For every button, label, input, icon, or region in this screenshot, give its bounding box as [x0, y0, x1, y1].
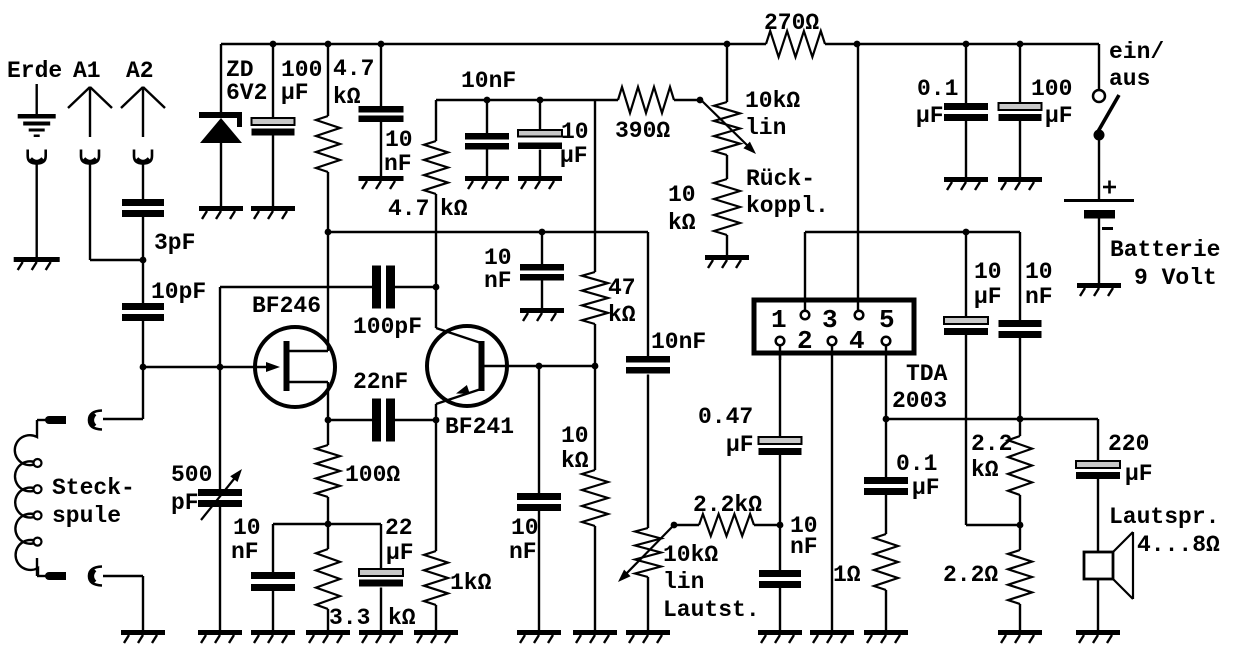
capacitor 10nF (feedback) [999, 320, 1042, 327]
wire 2.2k to input node [754, 524, 780, 526]
wire pin3 to ground [831, 346, 833, 630]
svg-text:µF: µF [386, 540, 414, 566]
svg-text:kΩ: kΩ [668, 210, 696, 236]
svg-text:10: 10 [561, 423, 589, 449]
svg-text:µF: µF [1045, 103, 1073, 129]
svg-text:10: 10 [1025, 259, 1053, 285]
wire rail to 4.7k [327, 44, 329, 116]
svg-text:aus: aus [1109, 66, 1150, 92]
svg-text:nF: nF [231, 539, 259, 565]
collector lead BF241 [435, 287, 437, 328]
svg-text:3: 3 [822, 305, 838, 335]
potentiometer 10 kOhm lin volume [635, 528, 661, 577]
wire 47k column from regen rail [594, 100, 596, 272]
ground (0.1uF supply) [944, 177, 988, 182]
wire 4.7k to drain rail [327, 172, 329, 232]
capacitor 0.1uF (supply) [944, 103, 988, 110]
svg-text:kΩ: kΩ [388, 605, 416, 631]
wire 100uF from rail [272, 44, 274, 118]
drain lead BF246 [289, 350, 328, 352]
svg-text:µF: µF [281, 80, 309, 106]
resistor 10 kOhm (base bias lower) [582, 470, 608, 526]
svg-text:390Ω: 390Ω [615, 118, 670, 144]
wire input node to 10nF [779, 525, 781, 570]
capacitor 10uF electrolytic (regen rail) [518, 130, 562, 137]
svg-text:Batterie: Batterie [1110, 237, 1220, 263]
node 0.1uF rail [963, 41, 970, 48]
zener diode ZD 6V2 [199, 112, 242, 118]
wire gate node to 500pF junction [143, 366, 220, 368]
ground (2.2R) [998, 630, 1042, 635]
capacitor 10nF (drain RF filter) [520, 264, 564, 271]
svg-text:Rück-: Rück- [746, 166, 815, 192]
svg-text:Lautst.: Lautst. [663, 597, 760, 623]
svg-text:2.2Ω: 2.2Ω [943, 562, 998, 588]
svg-text:nF: nF [384, 151, 412, 177]
resistor 2.2 kOhm (to amp input) [699, 514, 754, 536]
socket for Erde lead [28, 150, 46, 164]
node 500pF junction [217, 364, 224, 371]
plus sign [1103, 186, 1116, 189]
capacitor 22nF [372, 399, 381, 442]
wire coil bottom socket to ground [103, 575, 143, 577]
node emitter/22nF [433, 417, 440, 424]
svg-text:0.1: 0.1 [896, 451, 937, 477]
ground (10uF regen) [518, 176, 562, 181]
pin 3 circle [828, 337, 837, 346]
transistor BF246 JFET [255, 327, 335, 407]
wire 10nF branch [272, 524, 274, 572]
svg-text:10: 10 [385, 127, 413, 153]
svg-text:µF: µF [912, 475, 940, 501]
svg-text:220: 220 [1108, 431, 1149, 457]
ground (100uF supply) [998, 177, 1042, 182]
node feedback divider [1017, 522, 1024, 529]
node 10nF/output [1017, 416, 1024, 423]
wire pin2 rail [805, 231, 1020, 233]
wire switch to battery [1098, 135, 1100, 199]
svg-text:Erde: Erde [7, 58, 62, 84]
capacitor 10nF (input filter) [759, 570, 801, 577]
capacitor 3pF [122, 199, 164, 206]
svg-text:Lautspr.: Lautspr. [1109, 504, 1219, 530]
node A1/A2 junction [140, 257, 147, 264]
wire 10uF down to divider [965, 335, 967, 525]
svg-text:BF241: BF241 [445, 414, 514, 440]
svg-text:5: 5 [879, 305, 895, 335]
wire 4.7k down to collector node [435, 194, 437, 287]
svg-text:100pF: 100pF [353, 314, 422, 340]
svg-text:10: 10 [561, 119, 589, 145]
svg-text:µF: µF [726, 432, 754, 458]
wire pin4/Vs from rail [854, 41, 861, 48]
svg-text:ein/: ein/ [1109, 39, 1164, 65]
wire feedback line right [395, 286, 436, 288]
ground (3.3k) [306, 630, 350, 635]
battery 9V [1064, 199, 1134, 202]
ground (input filter) [758, 630, 802, 635]
socket coil bottom [89, 567, 102, 586]
wire Zobel from output node [885, 419, 887, 477]
wire rail to switch [1098, 44, 1100, 90]
wire speaker to ground [1097, 579, 1099, 630]
pin 4 circle [855, 311, 864, 320]
resistor 1 kOhm (emitter) [424, 551, 448, 605]
capacitor 100pF (feedback) [372, 266, 381, 309]
wire tank node down to coil plug [142, 367, 144, 419]
wire 500pF down [219, 367, 221, 489]
antenna A1 [89, 87, 91, 137]
capacitor 22uF electrolytic [359, 569, 403, 576]
wire wiper to 2.2k [674, 524, 699, 526]
resistor 390 Ohm [618, 87, 674, 113]
wire node to 10pF [142, 260, 144, 303]
svg-text:µF: µF [1125, 461, 1153, 487]
ground (regen divider) [705, 255, 749, 260]
svg-text:lin: lin [663, 569, 704, 595]
wiper arrow of volume pot [671, 522, 678, 529]
wire zener from rail [220, 44, 222, 112]
variable capacitor 500pF [198, 489, 242, 496]
ground (Zobel) [864, 630, 908, 635]
svg-text:pF: pF [171, 490, 199, 516]
antenna A2 [142, 87, 144, 137]
capacitor 10nF (AF coupling) [626, 356, 670, 363]
svg-text:10: 10 [974, 259, 1002, 285]
arrow of variable capacitor 500pF [201, 474, 238, 520]
ground (1k) [414, 630, 458, 635]
svg-text:1Ω: 1Ω [833, 562, 861, 588]
node base junction [592, 363, 599, 370]
svg-text:µF: µF [560, 143, 588, 169]
resistor 2.2 Ohm (feedback divider) [1019, 525, 1021, 550]
source lead BF246 [289, 381, 328, 383]
svg-text:kΩ: kΩ [440, 196, 468, 222]
minus sign [1102, 227, 1113, 230]
wire feedback line left [220, 286, 372, 288]
wire 22uF branch [380, 524, 382, 569]
svg-text:10: 10 [511, 515, 539, 541]
wire A1 down to join A2 [89, 164, 91, 260]
wire output pin down [885, 346, 887, 419]
ground (coil) [121, 630, 165, 635]
switch ein/aus [1093, 90, 1105, 102]
wire 0.1uF from rail [965, 44, 967, 103]
svg-text:nF: nF [484, 268, 512, 294]
ground (base filter) [517, 630, 561, 635]
svg-text:3.3: 3.3 [329, 605, 370, 631]
wire 3pF to node [142, 216, 144, 260]
ground (drain filter) [520, 308, 564, 313]
svg-text:22nF: 22nF [353, 369, 408, 395]
svg-text:4: 4 [849, 326, 865, 356]
svg-text:2: 2 [797, 326, 813, 356]
earth electrode symbol (Erde) [36, 84, 38, 114]
svg-text:lin: lin [745, 115, 786, 141]
base wire BF241 [485, 365, 596, 367]
resistor 4.7 kOhm (drain load) [316, 116, 340, 172]
node collector/100pF [433, 284, 440, 291]
node drain rail 10nF filter [539, 229, 546, 236]
node 4.7k on rail [325, 41, 332, 48]
wire regen rail [436, 99, 595, 101]
wire junction up to feedback line [219, 287, 221, 367]
node 22nF left [325, 417, 332, 424]
ground (zener) [199, 206, 243, 211]
wire +9V top rail right segment [825, 43, 1099, 45]
capacitor 10nF (regen rail) [465, 133, 509, 140]
capacitor 10nF (AF bus left) [251, 572, 295, 579]
wire 100R from 22nF node [327, 420, 329, 445]
node tank/gate junction [140, 364, 147, 371]
svg-text:270Ω: 270Ω [764, 10, 819, 36]
svg-text:9 Volt: 9 Volt [1134, 265, 1217, 291]
wire to 10nF [486, 100, 488, 133]
resistor 47 kOhm (base bias) [582, 272, 608, 324]
wire AF bus [273, 523, 381, 525]
wire pin2 up [804, 232, 806, 310]
wire 22nF right [395, 419, 436, 421]
potentiometer 10 kOhm lin (Rueckkopplung) [714, 102, 740, 155]
capacitor 10uF electrolytic (feedback) [944, 317, 988, 324]
svg-text:1: 1 [771, 305, 787, 335]
svg-text:kΩ: kΩ [608, 302, 636, 328]
wire 10uF from pin2 rail [965, 232, 967, 317]
ground (10nF AF) [251, 630, 295, 635]
capacitor 10nF (supply decoupling) [359, 106, 404, 113]
node 100uF rail right [1017, 41, 1024, 48]
gate wire into BF246 [220, 366, 266, 368]
node 10uF feedback [963, 229, 970, 236]
svg-text:koppl.: koppl. [746, 193, 829, 219]
wire 10k to ground [726, 235, 728, 255]
wire to 10uF [539, 100, 541, 130]
wire 10nF to output net [1019, 338, 1021, 419]
wire to 10nF filter [541, 232, 543, 264]
capacitor 100uF electrolytic (supply right) [999, 103, 1042, 110]
resistor 4.7 kOhm (collector load) [424, 141, 448, 194]
wire base 10nF down [538, 366, 540, 493]
node wiper 390R [697, 97, 704, 104]
svg-text:10pF: 10pF [151, 279, 206, 305]
wire A2 to 3pF [142, 164, 144, 199]
svg-text:10nF: 10nF [651, 329, 706, 355]
svg-text:µF: µF [916, 103, 944, 129]
ground (10nF supply) [359, 176, 404, 181]
svg-text:0.1: 0.1 [917, 76, 958, 102]
ground (volume pot) [626, 630, 670, 635]
svg-text:10kΩ: 10kΩ [745, 88, 800, 114]
svg-text:A2: A2 [126, 58, 154, 84]
svg-text:nF: nF [1025, 284, 1053, 310]
ground (pin3) [810, 630, 854, 635]
wire coupling cap to volume pot [647, 375, 649, 529]
wire coil bottom to plug [36, 558, 38, 576]
node 10nF on rail [378, 41, 385, 48]
ground (10k base) [573, 630, 617, 635]
wire input node up to 0.47uF [779, 455, 781, 525]
svg-text:10nF: 10nF [461, 68, 516, 94]
svg-text:100: 100 [1031, 76, 1072, 102]
svg-text:nF: nF [509, 539, 537, 565]
node base 10nF [536, 363, 543, 370]
wire 10pF down to tank node [142, 320, 144, 367]
wire output net [886, 418, 1098, 420]
svg-text:0.47: 0.47 [698, 404, 753, 430]
wire pot to 10k [726, 155, 728, 179]
svg-text:2.2: 2.2 [971, 431, 1012, 457]
svg-text:kΩ: kΩ [971, 457, 999, 483]
node output [883, 416, 890, 423]
capacitor 220uF electrolytic [1076, 461, 1120, 468]
svg-text:µF: µF [974, 284, 1002, 310]
svg-text:100Ω: 100Ω [345, 462, 400, 488]
node amp input [777, 522, 784, 529]
wire emitter to 1k [435, 420, 437, 551]
node 100uF on rail [270, 41, 277, 48]
svg-text:10: 10 [668, 182, 696, 208]
resistor 3.3 kOhm [316, 549, 340, 609]
socket A1 [81, 150, 99, 164]
wire 220uF to speaker [1097, 479, 1099, 552]
wire pin1 stub [779, 346, 781, 360]
emitter lead BF241 with arrow [436, 389, 481, 404]
svg-text:22: 22 [385, 515, 413, 541]
socket coil top [89, 411, 102, 430]
transistor BF241 [427, 326, 507, 406]
plug pin coil top [49, 416, 66, 424]
svg-text:TDA: TDA [906, 361, 948, 387]
svg-text:4.7: 4.7 [388, 196, 429, 222]
pin 1 circle [776, 337, 785, 346]
capacitor 10nF (base filter) [517, 493, 561, 500]
wire rail to 10nF [380, 44, 382, 106]
wire pin2 rail corner to 10nF [1019, 232, 1021, 320]
svg-text:4...8Ω: 4...8Ω [1137, 532, 1220, 558]
capacitor 0.47uF electrolytic [759, 437, 802, 444]
wire regen rail to 4.7k [435, 100, 437, 141]
svg-text:10kΩ: 10kΩ [663, 542, 718, 568]
wire drain rail [328, 231, 648, 233]
svg-text:4.7: 4.7 [333, 56, 374, 82]
svg-text:10: 10 [233, 515, 261, 541]
capacitor 0.1uF (Zobel) [864, 477, 908, 484]
svg-text:spule: spule [52, 503, 121, 529]
ground (Erde column) [14, 257, 60, 262]
wire 2.2k feedback down [1019, 419, 1021, 436]
ground (100uF) [251, 206, 295, 211]
svg-text:6V2: 6V2 [226, 80, 267, 106]
node regen rail 10nF [484, 97, 491, 104]
resistor 2.2 kOhm (feedback) [1008, 436, 1032, 495]
svg-text:2003: 2003 [892, 388, 947, 414]
ground (22uF) [359, 630, 403, 635]
svg-text:nF: nF [790, 534, 818, 560]
socket A2 [134, 150, 152, 164]
resistor 100 Ohm [316, 445, 340, 497]
pin 5 circle [882, 337, 891, 346]
wire 22nF left [328, 419, 372, 421]
wire battery to ground [1098, 219, 1100, 284]
resistor 270 Ohm in top rail [766, 31, 825, 57]
wire +9V top rail left segment [221, 43, 766, 45]
ground (speaker) [1076, 630, 1120, 635]
wire rail to regen pot [724, 41, 731, 48]
wire 0.47uF to pin1 [779, 355, 781, 437]
ground (battery) [1077, 283, 1121, 288]
ground (500pF) [198, 630, 242, 635]
svg-text:kΩ: kΩ [561, 448, 589, 474]
resistor 10 kOhm (regen divider) [714, 179, 740, 235]
node drain rail left end [325, 229, 332, 236]
svg-text:500: 500 [171, 462, 212, 488]
wire 3.3k down [327, 524, 329, 549]
svg-text:47: 47 [608, 275, 636, 301]
svg-text:Steck-: Steck- [52, 475, 135, 501]
svg-text:2.2kΩ: 2.2kΩ [693, 492, 762, 518]
node 100R/3.3k junction [325, 521, 332, 528]
wiper arrow of regen potentiometer [701, 100, 750, 148]
svg-text:A1: A1 [73, 58, 101, 84]
capacitor 10pF [122, 303, 164, 310]
plug pin coil bottom [49, 572, 66, 580]
pin 2 circle [801, 311, 810, 320]
wire 100uF from rail [1019, 44, 1021, 103]
node regen rail 10uF [537, 97, 544, 104]
ground (10nF regen) [465, 176, 509, 181]
svg-text:1kΩ: 1kΩ [450, 570, 492, 596]
wire base 10k down [594, 366, 596, 470]
wire output to 220uF [1097, 419, 1099, 461]
svg-text:BF246: BF246 [252, 293, 321, 319]
op-amp U1 TDA2003 box [754, 300, 914, 353]
speaker Lautsprecher [1084, 552, 1113, 579]
svg-text:3pF: 3pF [154, 230, 195, 256]
wire plug to coil [37, 419, 50, 421]
svg-text:kΩ: kΩ [333, 84, 361, 110]
wire drain rail corner down to coupling cap [647, 232, 649, 356]
resistor 1 Ohm (Zobel) [874, 534, 898, 590]
capacitor 100uF electrolytic (supply) [252, 118, 295, 125]
inductor Steckspule coil body [15, 420, 38, 576]
wire Erde down [36, 164, 38, 257]
